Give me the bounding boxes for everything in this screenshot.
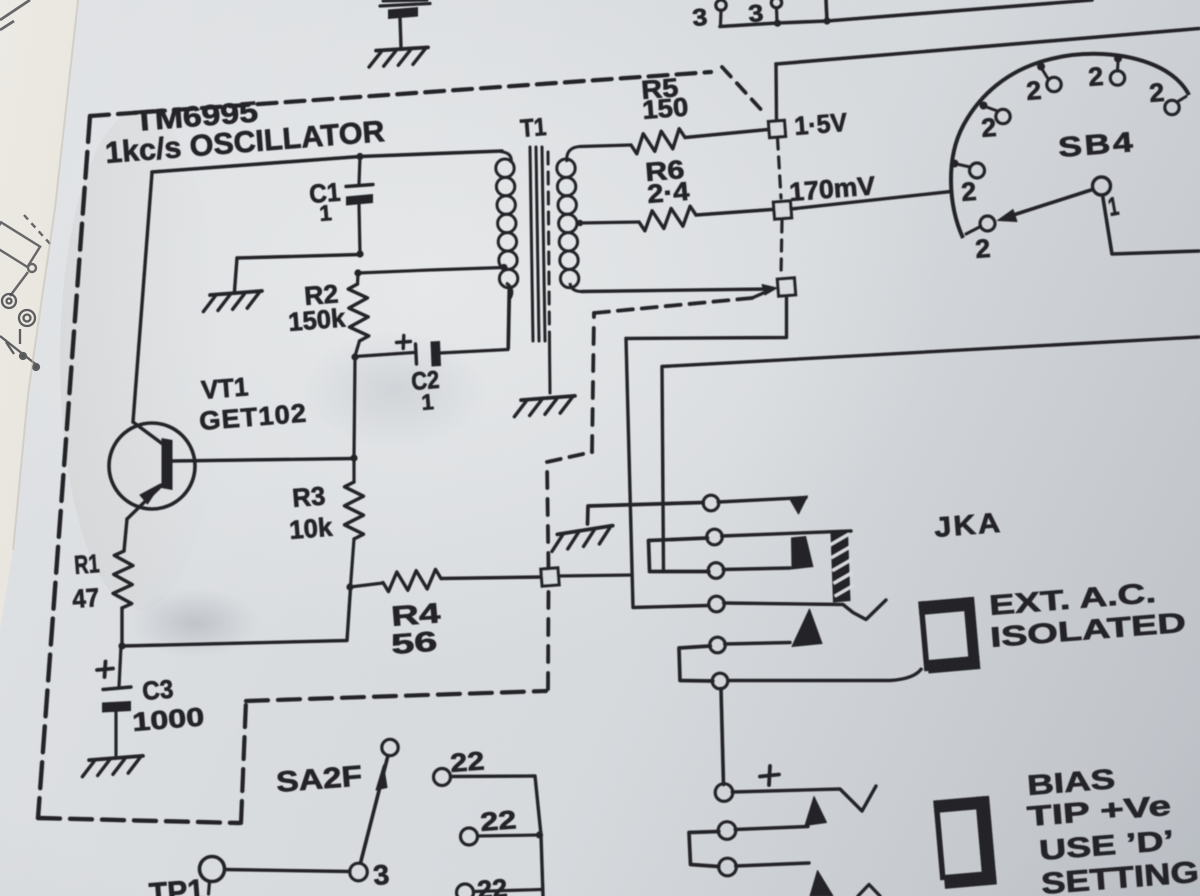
underlying sheet fragment: component box and leader [0, 215, 52, 296]
switch SB4 arc [951, 54, 1189, 238]
junction (R2 bottom) [351, 353, 358, 360]
label 2a [980, 112, 997, 143]
SB4 contact 2b [1037, 63, 1061, 92]
dashed enclosure right edge (upper) [592, 313, 594, 452]
label TIP +Ve [1026, 790, 1172, 832]
wire output stub [559, 575, 633, 576]
jack tip mark (bottom) [858, 885, 880, 896]
label 22a [449, 745, 485, 778]
resistor R3 [345, 458, 364, 586]
wire T1 secondary top to R5 [580, 145, 631, 147]
label VT1 [198, 371, 308, 436]
wire jack feed 1 (vertical) [626, 339, 708, 608]
jack spring 2 [722, 531, 851, 536]
wire R2-top to T1 primary tap [358, 268, 503, 274]
wire oscillator top rail [152, 151, 502, 172]
junction (rail corner) [823, 17, 830, 24]
SB4 contact 2d [1165, 97, 1186, 115]
capacitor C4 (top edge, decoupling) [380, 0, 430, 47]
jack contact 3 [708, 563, 724, 579]
wire SA2F to TP1 [225, 870, 350, 872]
junction (C1 bottom) [356, 250, 363, 257]
label T1 [519, 113, 547, 143]
switch SA2F [350, 739, 398, 881]
wire T1 secondary tap to R6 [579, 222, 639, 223]
wire T1 secondary bottom to terminal [582, 289, 770, 292]
ground (C3) [81, 756, 144, 777]
junction (R3 bottom) [346, 583, 353, 590]
arrow into output terminal [752, 285, 777, 299]
wire divider to base node [354, 358, 355, 457]
terminal (isolated output) [777, 278, 795, 296]
junction (C1 top) [356, 153, 363, 160]
testpoint TP1 [200, 857, 225, 895]
label C3 plus [97, 662, 113, 678]
jack spring 9 [736, 863, 833, 896]
label BIAS [1026, 763, 1116, 801]
transformer T1 screen [548, 152, 550, 393]
jack contact 7 [715, 784, 733, 802]
resistor R5 [631, 129, 768, 154]
wire 22b link [478, 835, 540, 836]
junction (base node) [350, 454, 357, 461]
wire SB4 rotor down and right [1103, 195, 1200, 254]
switch SB4 rotor [998, 177, 1111, 222]
label USE 'D' [1038, 824, 1175, 865]
dashed enclosure left edge [38, 116, 90, 818]
label 3 (SA2F) [372, 859, 390, 891]
contact 22c [457, 884, 474, 896]
wire contact6 to contact7 [721, 689, 724, 785]
jack spring 3 [723, 536, 813, 570]
jack spring 7 contact [805, 797, 827, 826]
jack insulator bar [830, 532, 854, 603]
capacitor C2 [416, 290, 510, 367]
terminal 1.5V [768, 120, 785, 137]
dashed enclosure step up [241, 701, 246, 823]
jack contact 9 [719, 858, 737, 876]
wire contact5-6 link [679, 646, 713, 681]
label 2e [960, 176, 977, 207]
label SB4 [1057, 126, 1136, 163]
label 2b [1025, 75, 1042, 106]
contact 22a [434, 769, 451, 786]
underlying sheet fragment: corner lines [0, 0, 30, 30]
label 22c [476, 873, 508, 896]
label EXT. A.C. [988, 577, 1157, 621]
wire 22a feed [451, 776, 542, 835]
label + (tip bias) [760, 766, 779, 785]
jack contact 8 [718, 822, 736, 840]
wire contact3 link [650, 570, 709, 574]
dashed enclosure right edge (above R4 node) [547, 463, 549, 569]
label ISOLATED [989, 607, 1187, 653]
label C1 [308, 177, 341, 226]
wire top-right rail [720, 0, 1092, 27]
label R1 [71, 548, 100, 614]
dashed output run to isolated terminal [594, 298, 752, 313]
underlying sheet fragment: circled terminals [0, 294, 39, 370]
wire to left ground [235, 255, 361, 292]
wire contact8-9 link [689, 832, 719, 867]
label TM6995 [133, 96, 259, 138]
ground (jack input) [549, 526, 615, 552]
label 3a [691, 4, 708, 32]
label C2 plus [397, 336, 411, 349]
transistor VT1 [109, 173, 354, 551]
wire right-edge feed [662, 337, 1199, 570]
junction (3b rail) [774, 20, 781, 27]
label R6 [644, 154, 691, 209]
SB4 contact 2f [966, 216, 995, 234]
ground (top centre) [368, 47, 429, 67]
label 22b [479, 804, 517, 837]
capacitor C1 [346, 157, 373, 254]
label R4 [390, 597, 442, 660]
label JKA [933, 507, 1003, 543]
wire jack ground to contact [588, 503, 704, 525]
resistor R2 [348, 274, 369, 356]
jack contact 5 [710, 637, 726, 653]
SB4 contact 2e [951, 160, 985, 179]
junction (R2 top) [354, 269, 361, 276]
label 170mV [788, 170, 877, 207]
main sheet edge [13, 0, 78, 550]
junction (secondary tap) [577, 220, 583, 226]
wire R2-bottom to C2 [355, 353, 414, 357]
wire contact 6 to isolated socket [727, 668, 922, 681]
dashed enclosure top edge [90, 72, 711, 116]
dashed enclosure right edge (below R4 node) [546, 586, 550, 689]
label 1.5V [793, 107, 849, 141]
jack contact 4 [709, 596, 725, 612]
wire emitter node to R3 foot [122, 588, 351, 646]
jack spring 5 [725, 609, 822, 647]
label R3 [288, 480, 334, 544]
label SA2F [275, 760, 363, 799]
dashed link 1.5V to 170mV terminal [778, 138, 782, 198]
wire long rail to SB4 side [776, 29, 1199, 65]
label R5 [640, 72, 689, 125]
dashed diagonal to 1.5V terminal [722, 67, 766, 115]
contact 22b [461, 828, 478, 845]
junction (T1 primary tap) [500, 264, 507, 271]
socket EXT.A.C. ISOLATED [918, 597, 980, 674]
label 2d [1148, 77, 1165, 108]
terminal (oscillator output node) [541, 568, 559, 586]
jack spring 1 [718, 496, 807, 514]
terminal 170mV [773, 201, 791, 219]
resistor R6 [639, 206, 772, 231]
junction (emitter node) [118, 642, 125, 649]
dashed enclosure bottom edge (mid part) [246, 691, 546, 701]
jack contact 6 [712, 673, 728, 689]
wire vertical stub at rail corner [826, 0, 827, 21]
label TP1 [148, 874, 205, 896]
dashed enclosure bottom edge (left part) [38, 818, 239, 823]
wire 22 bus lower [541, 835, 543, 896]
wire 22c link [474, 890, 542, 892]
wire isolated terminal drop [626, 296, 787, 339]
transformer T1 secondary winding [557, 147, 583, 292]
ground (T1 screen) [513, 396, 576, 417]
wire 170mV to SB4 [791, 192, 951, 210]
label 1kc/s OSCILLATOR [104, 115, 386, 170]
jack spring 4 with tip [724, 600, 886, 620]
label 1 (rotor) [1106, 191, 1121, 222]
jack contact 2 [707, 529, 723, 545]
dashed enclosure jog [547, 452, 592, 462]
label 3b [747, 0, 764, 28]
resistor R1 [113, 551, 133, 645]
jack spring 7 with tip [732, 786, 876, 811]
label R2 [287, 278, 347, 337]
label C2 [410, 366, 440, 415]
SB4 contact 2a [980, 102, 1011, 124]
ground (bias divider) [202, 291, 263, 312]
jack contact 1 [703, 495, 719, 511]
contact 3b [771, 0, 781, 22]
wire contact2 link [649, 538, 708, 570]
dashed link 170mV to isolated terminal [781, 221, 782, 275]
label 2f [974, 233, 991, 264]
label SETTING [1040, 856, 1200, 896]
resistor R4 [350, 569, 541, 591]
capacitor C3 [102, 646, 131, 755]
jack spring 8 [735, 827, 808, 830]
transformer T1 core [530, 147, 545, 341]
socket BIAS [933, 796, 997, 890]
junction (22 bus) [536, 831, 543, 838]
label 2c [1087, 61, 1104, 92]
transformer T1 primary winding [496, 152, 518, 350]
label C3 [131, 674, 205, 737]
wire 1.5V box riser [774, 64, 778, 121]
contact 3a [716, 0, 726, 25]
SB4 contact 2c [1110, 55, 1124, 86]
